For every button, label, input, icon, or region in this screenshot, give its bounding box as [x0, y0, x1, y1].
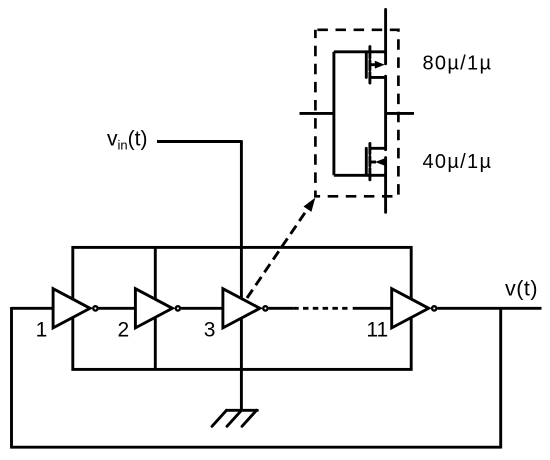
wire feedback right vertical — [499, 308, 502, 448]
pmos M1 bulk arrow — [375, 61, 385, 69]
inset dashed box — [315, 30, 398, 197]
svg-text:v(t): v(t) — [505, 276, 538, 300]
nmos M2 channel segments — [368, 143, 371, 179]
inverter U11 bubble — [432, 306, 436, 310]
ground symbol — [212, 410, 257, 426]
pmos M1 gate bar — [365, 52, 368, 78]
pmos M1 bulk wire — [370, 63, 376, 66]
svg-text:vin(t): vin(t) — [107, 128, 147, 153]
inverter U3 bubble — [263, 306, 267, 310]
wire dotted continuation — [293, 307, 347, 310]
wire input to inverter 1 — [12, 307, 55, 310]
wire output v(t) — [437, 307, 541, 310]
pmos M1 gate+source line — [334, 50, 386, 53]
nmos M2 bulk arrow — [375, 158, 385, 166]
inverter U1 bubble — [93, 306, 97, 310]
inset input wire — [300, 112, 334, 115]
wire vin horizontal — [157, 140, 241, 143]
inverter U2 bubble — [176, 306, 180, 310]
svg-text:3: 3 — [204, 318, 216, 341]
nmos M2 gate+source line — [334, 174, 386, 177]
inset output wire — [386, 112, 414, 115]
inverter U2 triangle — [135, 289, 172, 328]
svg-text:1: 1 — [36, 318, 48, 341]
wire inverter2 to inverter3 — [181, 307, 223, 310]
svg-text:2: 2 — [118, 318, 130, 341]
svg-text:11: 11 — [366, 318, 388, 341]
nmos M2 gate bar — [365, 148, 368, 175]
wire into inverter 11 — [353, 307, 392, 310]
inset output rail segments — [384, 10, 387, 213]
pmos M1 drain stub — [370, 76, 386, 79]
wire vin/inverter-3 supply/ground vertical — [240, 140, 243, 410]
pmos M1 channel segments — [368, 47, 371, 83]
dashed callout arrow shaft — [247, 209, 308, 298]
nmos M2 bulk wire — [370, 161, 376, 164]
nmos M2 drain stub — [370, 147, 386, 150]
wire feedback left vertical — [10, 307, 13, 447]
gate bus vertical — [332, 52, 335, 176]
svg-text:40µ/1µ: 40µ/1µ — [423, 151, 493, 173]
wire feedback bottom — [10, 446, 501, 449]
svg-text:80µ/1µ: 80µ/1µ — [423, 53, 493, 75]
wire inverter-2 supply vertical — [154, 247, 157, 369]
wire inverter3 output — [269, 307, 294, 310]
dashed callout arrowhead — [304, 198, 316, 212]
inverter U3 triangle — [223, 289, 260, 328]
inverter U1 triangle — [53, 289, 90, 328]
wire inverter1 to inverter2 — [99, 307, 136, 310]
supply rail box of inverter chain — [73, 247, 411, 369]
inverter U11 triangle — [392, 289, 429, 328]
